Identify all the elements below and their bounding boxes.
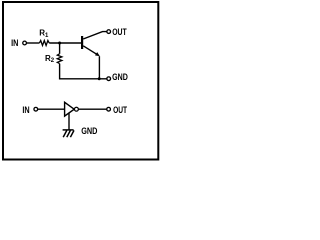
svg-text:OUT: OUT	[112, 27, 127, 37]
svg-text:OUT: OUT	[113, 105, 127, 115]
svg-text:IN: IN	[11, 38, 18, 48]
svg-text:GND: GND	[81, 126, 98, 136]
svg-text:IN: IN	[22, 105, 29, 115]
svg-text:GND: GND	[112, 72, 128, 82]
